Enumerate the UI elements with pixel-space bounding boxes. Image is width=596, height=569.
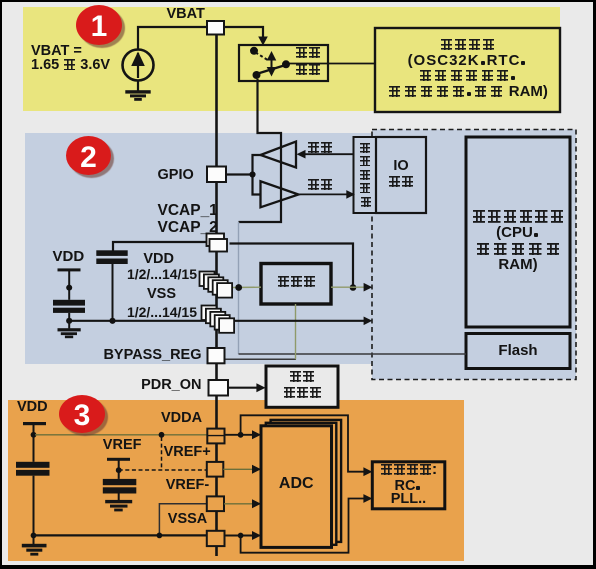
dashed wire VREF+ xyxy=(161,437,163,470)
dashed core-domain box xyxy=(372,130,576,380)
current source I1 xyxy=(123,50,154,81)
node regulator right xyxy=(350,284,357,291)
node VSS left xyxy=(66,318,72,324)
backup circuit box xyxy=(375,28,560,112)
node VDD junction xyxy=(235,284,242,291)
wire GPIO pad to buffers xyxy=(226,173,253,175)
label VREF xyxy=(103,438,142,453)
wire VDDA to analog route xyxy=(241,415,364,471)
pad GPIO xyxy=(207,167,226,183)
capacitor C2 xyxy=(96,250,127,256)
ground G2 xyxy=(58,328,81,331)
analog circuit text xyxy=(372,462,445,478)
label input xyxy=(307,177,333,193)
capacitor C5 xyxy=(103,479,137,485)
node VREF- tap xyxy=(157,533,163,539)
wire source to ground xyxy=(137,81,139,92)
node VDDA left xyxy=(31,432,37,438)
label VCAP_1 VCAP_2 xyxy=(158,203,218,219)
wire VSSA to analog route xyxy=(241,499,364,553)
core logic text xyxy=(466,210,570,226)
region 3 orange background xyxy=(8,400,464,561)
badge 3 xyxy=(59,395,105,433)
ground G4 xyxy=(105,500,132,503)
switch contacts xyxy=(250,47,258,55)
wire VCAP pads to external cap xyxy=(113,242,208,251)
capacitor C1 xyxy=(53,300,85,306)
label VDDA xyxy=(161,411,202,426)
label VSS 1/2...14/15 xyxy=(76,287,176,302)
wire VREF- to ADC xyxy=(224,503,253,505)
node VSSA left xyxy=(31,533,37,539)
light wire down to flash feed xyxy=(238,222,240,354)
wire VSS rail xyxy=(69,320,364,322)
label power switch xyxy=(295,45,321,61)
pad VREF- xyxy=(207,496,224,511)
core logic box xyxy=(466,137,570,327)
wire VSSA rail xyxy=(34,534,207,536)
ADC text xyxy=(261,476,332,492)
regulator text xyxy=(261,274,331,290)
wire VBAT source to pad xyxy=(138,27,207,50)
label VDD 1/2...14/15 xyxy=(74,252,174,267)
wire VSSA to ADC xyxy=(225,535,253,537)
regulator box xyxy=(261,264,331,305)
ADC stacked boxes xyxy=(271,420,342,542)
Flash text xyxy=(466,343,570,358)
node VREF+ tap xyxy=(159,432,165,438)
node VSS cap xyxy=(109,318,115,324)
ground G1 xyxy=(125,90,150,93)
output buffer U1 xyxy=(261,142,297,168)
analog circuit box xyxy=(372,462,445,509)
level shifter vertical text xyxy=(360,143,372,207)
arrow into switch xyxy=(258,37,268,46)
wire VDDA to ADC xyxy=(225,434,253,436)
power switch box xyxy=(239,45,328,81)
pad VCAP_1 VCAP_2 xyxy=(207,234,225,247)
ground G3 xyxy=(22,544,47,548)
wire VDDA rail xyxy=(35,434,207,436)
IO logic box xyxy=(376,137,426,213)
label VDD analog xyxy=(17,400,48,415)
pad fan VDD 1..15 xyxy=(200,272,215,287)
node GPIO junction xyxy=(249,171,255,177)
label VDD left xyxy=(53,249,85,264)
label VBAT = 1.65 to 3.6V xyxy=(31,44,82,59)
reset controller box xyxy=(266,366,338,407)
pad VDDA xyxy=(207,429,224,444)
supply bar VDD analog xyxy=(23,422,46,425)
pad VBAT xyxy=(207,21,224,35)
supply bar VREF xyxy=(107,458,130,461)
wire switch to backup box xyxy=(288,63,375,65)
pad VREF+ xyxy=(207,462,224,477)
wire VBAT pad to switch xyxy=(224,27,263,39)
supply bar VDD left xyxy=(58,268,81,271)
pad VSSA xyxy=(207,531,225,546)
label output xyxy=(307,140,333,156)
badge 2 xyxy=(66,136,111,175)
IO logic text xyxy=(376,159,426,174)
wire output level-shifter to buffer xyxy=(303,153,354,155)
pad PDR_ON xyxy=(209,380,229,396)
wire switch output down to IO cell xyxy=(239,79,282,222)
backup circuit text xyxy=(377,37,558,53)
pad BYPASS_REG xyxy=(208,348,225,363)
wire BYPASS_REG to regulator xyxy=(225,358,297,360)
badge 1 xyxy=(76,5,122,45)
main pin rail xyxy=(215,30,218,556)
region 1 yellow background xyxy=(23,7,560,111)
wire PDR_ON to reset controller xyxy=(228,387,257,389)
input buffer U2 xyxy=(261,181,299,207)
label VSSA xyxy=(168,512,208,527)
node VDD left xyxy=(66,285,72,291)
capacitor C4 xyxy=(16,462,50,468)
label VREF+ xyxy=(164,445,211,460)
reset controller text xyxy=(266,369,338,385)
wire VREF- to VSSA xyxy=(159,504,206,536)
label GPIO xyxy=(158,168,194,183)
wire regulator right to core xyxy=(331,286,364,288)
pad fan VSS 1..15 xyxy=(202,306,217,321)
Flash box xyxy=(466,334,570,369)
node VREF xyxy=(116,467,122,473)
label BYPASS_REG xyxy=(51,348,202,363)
wire input buffer to level-shifter xyxy=(299,193,348,195)
region 2 blue background xyxy=(25,133,560,364)
label VREF- xyxy=(166,478,210,493)
label PDR_ON xyxy=(101,378,202,393)
wire to Flash xyxy=(239,353,467,355)
label VBAT xyxy=(167,7,205,22)
wire VDD fan to regulator xyxy=(230,286,261,288)
wire VREF+ to ADC xyxy=(223,468,252,470)
wire VCAP to regulator xyxy=(230,244,354,285)
level shifter box xyxy=(354,137,377,213)
